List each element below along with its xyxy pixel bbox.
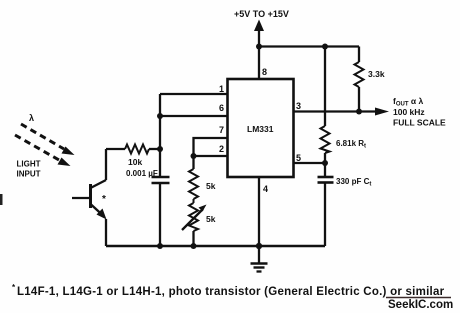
resistor 5k fixed — [189, 156, 198, 199]
svg-text:*: * — [102, 194, 106, 205]
phototransistor Q1 — [72, 149, 106, 246]
svg-text:λ: λ — [29, 113, 34, 123]
svg-text:LM331: LM331 — [247, 124, 274, 134]
svg-text:0.001 µF: 0.001 µF — [126, 169, 158, 178]
svg-text:7: 7 — [219, 125, 224, 135]
wire pin 4 — [258, 177, 260, 246]
ground rail wire — [106, 245, 325, 247]
junction dot ground/pin4 — [256, 243, 262, 249]
scan artifact left edge — [0, 194, 3, 205]
wire pin 6 — [160, 115, 228, 117]
svg-text:4: 4 — [263, 184, 268, 194]
junction dot pin6 node — [157, 113, 163, 119]
wire left node vertical — [159, 94, 161, 176]
svg-text:5k: 5k — [206, 214, 216, 224]
IC U1 LM331 V-F converter — [228, 79, 294, 177]
svg-text:8: 8 — [262, 67, 267, 77]
supply arrow — [254, 20, 264, 48]
svg-text:5: 5 — [296, 153, 301, 163]
svg-text:INPUT: INPUT — [17, 170, 41, 179]
svg-text:3: 3 — [296, 101, 301, 111]
junction dot cap bottom — [157, 243, 163, 249]
wire pin 1 — [160, 93, 228, 95]
wire pin 2 — [194, 155, 228, 157]
capacitor Ct 330pF — [324, 163, 326, 176]
wire pin 5 — [294, 162, 326, 164]
junction dot pin2/7 node — [191, 153, 197, 159]
resistor 5k variable — [182, 199, 203, 246]
capacitor C 0.001uF — [152, 177, 170, 183]
ground symbol — [251, 246, 268, 272]
wire pin 8 stub — [258, 47, 260, 80]
svg-text:SeekIC.com: SeekIC.com — [388, 299, 453, 311]
svg-text:6: 6 — [219, 103, 224, 113]
svg-text:100 kHz: 100 kHz — [393, 107, 425, 117]
junction dot pin5 node — [322, 160, 328, 166]
junction dot supply/pin8 — [256, 44, 262, 50]
svg-text:330 pF Ct: 330 pF Ct — [336, 177, 371, 188]
svg-text:2: 2 — [219, 144, 224, 154]
svg-text:10k: 10k — [128, 157, 142, 167]
resistor 3.3k — [355, 47, 364, 112]
resistor 6.81k Rt — [321, 47, 330, 164]
junction dot 10k right — [157, 146, 163, 152]
light arrow 1 — [21, 124, 75, 155]
resistor 10k — [106, 145, 160, 154]
svg-text:L14F-1, L14G-1 or L14H-1, phot: L14F-1, L14G-1 or L14H-1, photo transist… — [17, 286, 445, 298]
junction dot 6.81k top — [322, 44, 328, 50]
svg-text:1: 1 — [219, 84, 224, 94]
watermark underline — [386, 297, 451, 299]
wire pin 7 — [194, 138, 228, 156]
svg-text:5k: 5k — [206, 181, 216, 191]
svg-text:+5V TO +15V: +5V TO +15V — [234, 9, 289, 19]
junction dot 3.3k bottom — [356, 109, 362, 115]
svg-text:3.3k: 3.3k — [368, 69, 385, 79]
svg-text:FULL SCALE: FULL SCALE — [393, 118, 446, 128]
wire top rail — [258, 45, 359, 47]
svg-text:LIGHT: LIGHT — [17, 160, 41, 169]
light arrow 2 — [15, 135, 71, 166]
svg-text:6.81k Rt: 6.81k Rt — [336, 139, 366, 150]
junction dot 5k bottom — [191, 243, 197, 249]
wire pin 3 / output — [294, 110, 379, 112]
